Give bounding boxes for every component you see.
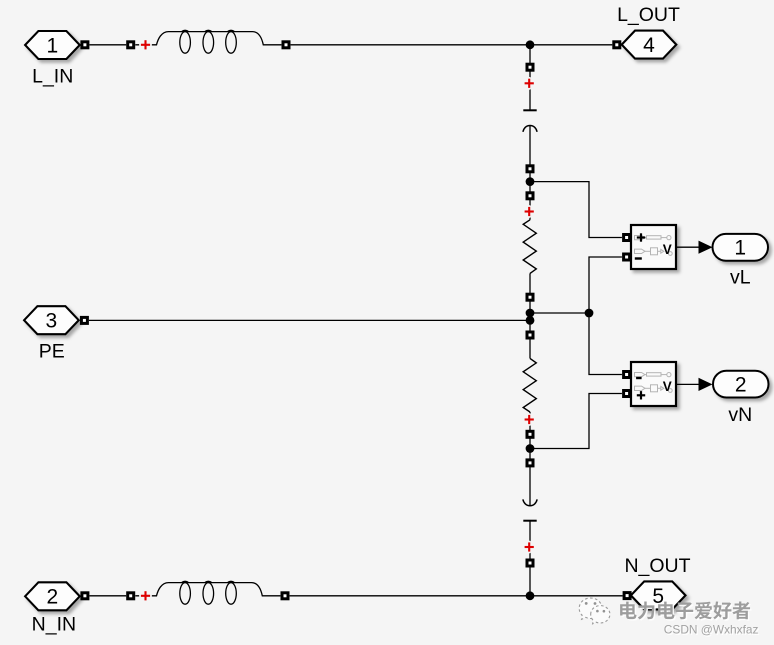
connector square R2 top terminal [526, 331, 535, 340]
connector square R1 bottom terminal [526, 293, 535, 302]
junction node N rail / branch [526, 591, 535, 600]
svg-text:2: 2 [735, 374, 747, 397]
connector square L2 left terminal [126, 591, 135, 600]
wire L1 to L_OUT [291, 44, 613, 46]
capacitor C2 bottom branch [523, 499, 537, 520]
connector square C2 bottom terminal [526, 559, 535, 568]
wire tap to voltmeter U1 + input [530, 182, 622, 238]
svg-text:N_IN: N_IN [32, 614, 76, 636]
polarity + mark R1 [525, 207, 534, 216]
resistor R1 zigzag [523, 220, 536, 274]
resistor R2 zigzag [523, 358, 536, 412]
wire PE to mid chain [89, 319, 530, 321]
port 4 L_OUT hexagon [622, 31, 677, 59]
port 2 N_IN hexagon [25, 582, 80, 610]
wire port2 to RLC branch L2 [90, 595, 127, 597]
svg-text:vL: vL [730, 267, 751, 289]
port square U1 + input [622, 233, 631, 242]
svg-text:L_OUT: L_OUT [617, 4, 680, 26]
junction node voltmeter reference [585, 309, 594, 318]
port square U1 - input [622, 253, 631, 262]
connector square R1 top terminal [526, 191, 535, 200]
svg-text:PE: PE [39, 341, 65, 363]
junction node L_OUT rail / C-R branch [526, 40, 535, 49]
wire U1 output to port vL [676, 246, 699, 248]
wire C2 to bottom rail [529, 521, 531, 596]
port square U2 + input [622, 389, 631, 398]
junction node PE rail [526, 316, 535, 325]
wire top rail to capacitor C1 [529, 45, 531, 111]
wire C1 to resistor R1 [529, 125, 531, 220]
svg-text:3: 3 [46, 310, 58, 333]
wire R1 to resistor R2 [529, 273, 531, 358]
connector square C2 top terminal [526, 458, 535, 467]
port 5 N_OUT hexagon [631, 581, 686, 609]
junction node mid tap to voltmeters [526, 309, 535, 318]
polarity + mark C1 [525, 79, 534, 88]
wire R2 to capacitor C2 [529, 412, 531, 505]
polarity + mark L1 [141, 40, 150, 49]
connector square L1 left terminal [126, 40, 135, 49]
inductor L2 [135, 581, 280, 604]
outport 2 vN [713, 371, 769, 398]
svg-text:1: 1 [47, 34, 59, 57]
port square U2 - input [622, 370, 631, 379]
junction node vN+ tap [526, 444, 535, 453]
arrowhead into port 1 vL [699, 241, 713, 254]
wire mid tap horizontal [530, 312, 589, 314]
watermark wechat bubbles [579, 598, 610, 624]
wire L2 to N_OUT [290, 595, 623, 597]
inductor L1 [135, 30, 281, 53]
outport 1 vL [713, 234, 769, 261]
arrowhead into port 2 vN [699, 378, 713, 391]
svg-text:CSDN @Wxhxfaz: CSDN @Wxhxfaz [664, 623, 759, 637]
connector square C1 top terminal [526, 63, 535, 72]
svg-text:2: 2 [47, 586, 59, 609]
connector square L_OUT input [612, 40, 621, 49]
connector square L1 right terminal [282, 40, 291, 49]
wire mid tap to voltmeter U2 - input [589, 313, 622, 375]
junction node vL+ tap [526, 177, 535, 186]
svg-text:V: V [663, 379, 672, 394]
polarity + mark L2 [141, 591, 150, 600]
svg-text:4: 4 [643, 34, 655, 57]
voltage measurement block U2 [631, 362, 676, 406]
wire voltmeter U2 + input to vN tap [530, 394, 622, 449]
wire voltmeter U1 - input to mid tap [589, 257, 622, 313]
connector square port2 output [80, 591, 89, 600]
watermark text dianli dianzi aihaozhe [622, 603, 752, 621]
connector square R2 bottom terminal [526, 430, 535, 439]
wire port1 to RLC branch L1 [90, 44, 127, 46]
port 1 L_IN hexagon [25, 31, 80, 59]
voltage measurement block U1 [631, 225, 676, 269]
polarity + mark C2 [525, 542, 534, 551]
svg-text:vN: vN [728, 404, 752, 426]
connector square port1 output [80, 40, 89, 49]
connector square L2 right terminal [281, 591, 290, 600]
svg-text:L_IN: L_IN [32, 65, 73, 87]
wire U2 output to port vN [676, 383, 699, 385]
svg-text:N_OUT: N_OUT [624, 555, 690, 577]
connector square N_OUT input [623, 591, 632, 600]
capacitor C1 top branch [523, 110, 537, 132]
svg-text:V: V [663, 242, 672, 257]
svg-text:1: 1 [734, 237, 746, 260]
port 3 PE hexagon [24, 306, 79, 334]
connector square PE port [80, 316, 89, 325]
polarity + mark R2 [525, 415, 534, 424]
connector square C1 bottom terminal [526, 164, 535, 173]
